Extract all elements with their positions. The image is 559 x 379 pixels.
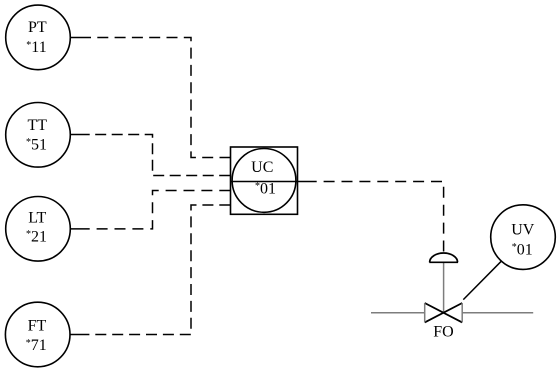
svg-text:FO: FO [433,324,453,341]
process pipe right segment [462,312,533,314]
wire TT to UC (dashed signal) [70,134,90,136]
svg-text:FT: FT [28,317,47,334]
wire UC output to valve actuator (dashed signal) [298,181,317,183]
diaphragm actuator dome [429,253,458,262]
process pipe left segment [371,312,425,314]
svg-text:UC: UC [251,159,273,176]
instrument bubble PT *11 [6,5,71,70]
link line UV bubble to valve [463,261,501,299]
svg-text:UV: UV [511,221,535,238]
instrument bubble FT *71 [5,302,70,367]
instrument bubble UV *01 [491,205,556,270]
wire LT to UC (dashed signal) [70,228,90,230]
shared controller UC *01 (circle in square) [231,147,298,214]
valve stem [443,262,445,312]
svg-text:PT: PT [28,19,47,36]
instrument bubble LT *21 [6,197,71,262]
svg-text:TT: TT [28,117,48,134]
instrument bubble TT *51 [6,103,71,168]
wire FT to UC (dashed signal) [70,334,90,336]
wire PT to UC (dashed signal) [70,37,91,39]
control valve body (bowtie) [425,303,463,322]
svg-text:LT: LT [28,209,46,226]
UC center line [231,181,298,183]
